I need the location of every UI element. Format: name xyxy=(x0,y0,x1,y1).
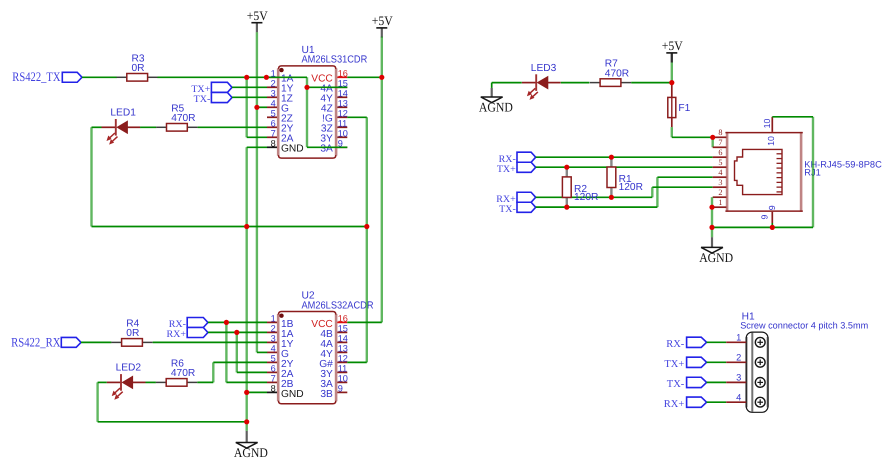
svg-text:6: 6 xyxy=(718,148,722,157)
U2 pin 4 (G) xyxy=(267,351,277,353)
wire LED1 down to gnd row xyxy=(90,127,92,226)
U2 pin 5 (2Y) xyxy=(267,361,277,363)
svg-text:5: 5 xyxy=(718,158,722,167)
svg-text:3A: 3A xyxy=(320,144,333,155)
RJ1 pin 5 xyxy=(713,166,727,168)
junction !G net at gnd row xyxy=(364,224,369,229)
svg-text:TX+: TX+ xyxy=(664,359,684,370)
junction GND rail / LED1 return xyxy=(244,224,249,229)
junction RX+ at U2 pin2 xyxy=(234,330,239,335)
svg-text:10: 10 xyxy=(766,136,776,146)
U2 pin 1 (1B) xyxy=(267,321,277,323)
svg-text:10: 10 xyxy=(338,374,348,384)
svg-text:11: 11 xyxy=(338,119,348,129)
wire AGND to LED3 xyxy=(492,82,522,84)
ground AGND (below RJ45) xyxy=(711,227,713,237)
wire RX+ to RJ45 pin3 xyxy=(536,196,653,198)
junction R1 bottom at RX+ xyxy=(609,195,614,200)
svg-text:AGND: AGND xyxy=(479,100,513,115)
wire TX- to RJ45 pin4 xyxy=(536,206,658,208)
U1 pin 4 (G) xyxy=(267,106,277,108)
svg-text:RS422_TX: RS422_TX xyxy=(12,69,61,84)
svg-text:5: 5 xyxy=(271,109,276,119)
wire LED3 to R7 xyxy=(561,82,590,84)
port TX+ xyxy=(211,82,232,92)
U1 pin 6 (2Y) xyxy=(267,126,277,128)
wire 1A-net rail down to U1 pin7 2A xyxy=(245,77,247,137)
connector H1 screw terminal xyxy=(746,332,768,412)
wire +5V#2 rail down to U2 VCC xyxy=(381,37,383,323)
svg-text:RX+: RX+ xyxy=(166,329,186,340)
U2 pin 6 (2A) xyxy=(267,371,277,373)
svg-text:14: 14 xyxy=(338,89,348,99)
port RX- (RJ45) xyxy=(517,152,536,162)
svg-text:2: 2 xyxy=(271,79,276,89)
wire R4 to U2 pin3 1Y xyxy=(153,341,267,343)
svg-text:470R: 470R xyxy=(171,368,195,379)
wire branch to 4A pin15 xyxy=(307,86,347,88)
svg-text:3B: 3B xyxy=(320,389,333,400)
resistor R4 0R xyxy=(111,341,121,343)
svg-text:8: 8 xyxy=(271,139,276,149)
svg-text:6: 6 xyxy=(271,364,276,374)
svg-text:12: 12 xyxy=(338,109,348,119)
LED1 xyxy=(102,126,116,128)
wire U1 GND to ground rail xyxy=(247,146,267,148)
wire RX- rail down to U2 pin7 2B xyxy=(225,322,227,382)
svg-text:16: 16 xyxy=(338,314,348,324)
svg-text:+5V: +5V xyxy=(372,13,394,28)
resistor R1 120R (termination RX) xyxy=(610,157,612,167)
svg-text:470R: 470R xyxy=(171,113,195,124)
svg-text:120R: 120R xyxy=(574,192,598,203)
IC U2 AM26LS32ACDR quad RS-422 line receiver xyxy=(277,311,337,405)
svg-text:TX-: TX- xyxy=(667,379,685,390)
svg-text:LED1: LED1 xyxy=(110,108,136,119)
svg-text:8: 8 xyxy=(271,384,276,394)
junction AGND row xyxy=(709,225,714,230)
junction RJ1 pin9 shield xyxy=(770,225,775,230)
svg-text:RS422_RX: RS422_RX xyxy=(11,334,61,349)
svg-text:4: 4 xyxy=(271,99,276,109)
wire F1 to RJ45 pins 8,7 xyxy=(671,127,673,137)
wire RJ45 bottom shield loop xyxy=(771,223,773,227)
svg-text:9: 9 xyxy=(338,384,343,394)
RJ1 pin 6 xyxy=(713,156,727,158)
H1 pin 1 port RX- xyxy=(687,337,707,347)
junction +5V / R7 / F1 xyxy=(669,80,674,85)
IC U1 AM26LS31CDR quad RS-422 line driver xyxy=(277,65,337,159)
LED2 xyxy=(107,381,121,383)
H1 pin 4 port RX+ xyxy=(687,397,707,407)
wire RX+ rail down to U2 pin6 2A xyxy=(236,332,238,372)
junction +5V at U1 G xyxy=(254,105,259,110)
junction TX-A net at rail xyxy=(244,75,249,80)
U1 pin 8 (GND) xyxy=(267,146,277,148)
wire TX+ to RJ45 pin5 xyxy=(536,166,713,168)
U1 pin 12 (!G) xyxy=(337,116,347,118)
wire +5V to node xyxy=(671,63,673,83)
svg-text:9: 9 xyxy=(767,205,777,210)
svg-text:10: 10 xyxy=(762,119,772,129)
svg-text:1: 1 xyxy=(271,314,276,324)
svg-text:3: 3 xyxy=(736,373,741,383)
resistor R7 470R xyxy=(590,82,600,84)
svg-text:5: 5 xyxy=(271,354,276,364)
U2 pin 15 (4B) xyxy=(337,331,347,333)
port TX- xyxy=(211,92,232,102)
svg-text:10: 10 xyxy=(338,129,348,139)
U1 pin 13 (4Z) xyxy=(337,106,347,108)
svg-text:9: 9 xyxy=(760,214,770,219)
wire RJ45 pin2,pin1 to AGND xyxy=(711,197,713,227)
junction R1 top at RX- xyxy=(609,155,614,160)
svg-text:7: 7 xyxy=(718,138,722,147)
svg-text:7: 7 xyxy=(271,374,276,384)
svg-text:GND: GND xyxy=(281,389,304,400)
U2 pin 11 (3Y) xyxy=(337,371,347,373)
U2 pin 16 (VCC) xyxy=(337,321,347,323)
port RS422_RX xyxy=(61,337,81,347)
U2 pin 10 (3A) xyxy=(337,381,347,383)
connector RJ1 KH-RJ45-59-8P8C xyxy=(726,132,801,212)
junction RJ1 pin8 xyxy=(710,135,715,140)
RJ1 pin 10 (top shield) xyxy=(771,117,773,132)
U2 pin 13 (4Y) xyxy=(337,351,347,353)
RJ1 pin 8 xyxy=(713,136,727,138)
wire LED1 to R5 xyxy=(140,126,156,128)
svg-text:RX-: RX- xyxy=(666,339,685,350)
H1 pin 3 port TX- xyxy=(687,377,707,387)
wire R6 up to U2 pin5 2Y xyxy=(197,381,213,383)
ground AGND (left of LED3) xyxy=(491,83,493,88)
U1 pin 16 (VCC) xyxy=(337,76,347,78)
port RX- (U2) xyxy=(187,318,208,328)
svg-text:120R: 120R xyxy=(619,182,643,193)
junction GND rail at U2 pin8 xyxy=(244,390,249,395)
svg-text:AM26LS32ACDR: AM26LS32ACDR xyxy=(302,300,374,311)
svg-text:0R: 0R xyxy=(126,328,139,339)
svg-text:TX-: TX- xyxy=(499,204,516,215)
svg-text:16: 16 xyxy=(338,69,348,79)
svg-text:11: 11 xyxy=(338,364,348,374)
wire LED2 left xyxy=(98,381,107,383)
wire RX- to RJ45 pin6 xyxy=(536,156,713,158)
svg-text:14: 14 xyxy=(338,334,348,344)
junction R2 bottom at TX- xyxy=(564,205,569,210)
svg-text:AM26LS31CDR: AM26LS31CDR xyxy=(302,55,368,66)
svg-text:1: 1 xyxy=(736,333,741,343)
svg-text:8: 8 xyxy=(718,128,722,137)
ground AGND (below U2) xyxy=(246,431,248,442)
U2 pin-1 marker xyxy=(279,314,283,318)
svg-text:LED2: LED2 xyxy=(116,363,142,374)
wire RS422_TX to R3 xyxy=(82,76,117,78)
U2 pin 2 (1A) xyxy=(267,331,277,333)
wire LED2 down to ground rail xyxy=(96,382,98,421)
resistor R3 0R xyxy=(117,76,127,78)
U1 pin 9 (3A) xyxy=(337,146,347,148)
svg-text:GND: GND xyxy=(281,144,304,155)
svg-text:6: 6 xyxy=(271,119,276,129)
port TX+ (RJ45) xyxy=(517,162,536,172)
wire RX+ to U2 pin2 1A xyxy=(208,331,267,333)
U1 pin 1 (1A) xyxy=(267,76,277,78)
U1 pin 11 (3Z) xyxy=(337,126,347,128)
junction RX- at U2 pin1 xyxy=(224,320,229,325)
junction +5V at U1 VCC xyxy=(379,75,384,80)
U1 pin-1 marker xyxy=(279,68,283,72)
svg-text:RX+: RX+ xyxy=(664,399,685,410)
U2 pin 14 (4A) xyxy=(337,341,347,343)
wire LED2 to R6 xyxy=(146,381,156,383)
wire R3 to U1 pin1 1A (continues over chip) xyxy=(158,76,308,78)
svg-text:4: 4 xyxy=(271,344,276,354)
svg-text:2: 2 xyxy=(271,324,276,334)
wire over U1: 1A net down to 3A xyxy=(306,77,308,147)
port RX+ (RJ45) xyxy=(517,192,536,202)
U1 pin 14 (4Y) xyxy=(337,96,347,98)
port TX- (RJ45) xyxy=(517,202,536,212)
wire RS422_RX to R4 xyxy=(81,341,111,343)
junction LED2 return xyxy=(244,419,249,424)
wire LED1 left xyxy=(92,126,102,128)
RJ1 pin 4 xyxy=(713,176,727,178)
svg-text:+5V: +5V xyxy=(662,38,684,53)
svg-text:TX+: TX+ xyxy=(497,164,516,175)
U1 pin 10 (3Y) xyxy=(337,136,347,138)
junction RJ1 pin1 xyxy=(709,205,714,210)
RJ1 pin 2 xyxy=(713,196,727,198)
svg-text:3: 3 xyxy=(718,178,722,187)
wire RX- to U2 pin1 1B xyxy=(208,321,267,323)
wire TX- to U1 pin3 xyxy=(232,96,267,98)
port RX+ (U2) xyxy=(187,328,208,338)
wire +5V rail down to U1 G and U2 G xyxy=(256,32,258,352)
wire TX+ to U1 pin2 xyxy=(232,86,267,88)
svg-text:1: 1 xyxy=(718,198,722,207)
U1 pin 3 (1Z) xyxy=(267,96,277,98)
U1 pin 2 (1Y) xyxy=(267,86,277,88)
svg-text:4: 4 xyxy=(736,392,741,402)
U2 pin 12 (G#) xyxy=(337,361,347,363)
svg-text:+5V: +5V xyxy=(247,8,269,23)
junction R2 top at TX+ xyxy=(564,165,569,170)
svg-text:LED3: LED3 xyxy=(531,63,557,74)
wire U1 VCC pin16 to +5V rail xyxy=(347,76,382,78)
U1 pin 15 (4A) xyxy=(337,86,347,88)
resistor R6 470R xyxy=(156,381,166,383)
svg-text:2: 2 xyxy=(718,188,722,197)
svg-text:3: 3 xyxy=(271,334,276,344)
RJ1 pin 1 xyxy=(713,206,727,208)
svg-text:13: 13 xyxy=(338,344,348,354)
RJ1 pin 3 xyxy=(713,186,727,188)
wire U1 pin12 !G down to U2 pin12 G# xyxy=(347,116,367,118)
H1 pin 2 port TX+ xyxy=(687,357,707,367)
svg-text:TX-: TX- xyxy=(194,94,211,105)
junction at U1 pin1 xyxy=(264,75,269,80)
U1 pin 5 (2Z) xyxy=(267,116,277,118)
fuse F1 xyxy=(671,83,673,98)
U2 pin 8 (GND) xyxy=(267,391,277,393)
svg-text:470R: 470R xyxy=(605,68,629,79)
svg-text:AGND: AGND xyxy=(699,250,733,265)
svg-text:Screw connector 4 pitch 3.5mm: Screw connector 4 pitch 3.5mm xyxy=(740,320,868,330)
RJ1 pin 7 xyxy=(713,146,727,148)
U2 pin 9 (3B) xyxy=(337,391,347,393)
svg-text:13: 13 xyxy=(338,99,348,109)
junction 4A branch xyxy=(304,85,309,90)
svg-text:7: 7 xyxy=(271,129,276,139)
svg-text:AGND: AGND xyxy=(234,445,268,460)
U2 pin 7 (2B) xyxy=(267,381,277,383)
svg-text:0R: 0R xyxy=(132,63,145,74)
wire U2 GND pin8 to rail xyxy=(247,391,267,393)
LED3 xyxy=(522,82,536,84)
resistor R5 470R xyxy=(156,126,166,128)
resistor R2 120R (termination TX) xyxy=(566,167,568,177)
U1 pin 7 (2A) xyxy=(267,136,277,138)
port RS422_TX xyxy=(62,72,82,82)
svg-text:3: 3 xyxy=(271,89,276,99)
svg-text:12: 12 xyxy=(338,354,348,364)
wire R5 to U1 pin6 2Y xyxy=(198,126,267,128)
U2 pin 3 (1Y) xyxy=(267,341,277,343)
RJ1 pin 9 (bottom shield) xyxy=(771,212,773,223)
wire R7 to +5V node xyxy=(631,82,672,84)
svg-text:15: 15 xyxy=(338,324,348,334)
svg-text:2: 2 xyxy=(736,353,741,363)
svg-text:4: 4 xyxy=(718,168,722,177)
svg-text:F1: F1 xyxy=(678,103,690,114)
